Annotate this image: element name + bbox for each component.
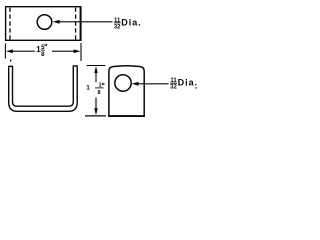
leader line to side hole [137, 83, 169, 85]
side view plate with arched top [109, 66, 144, 116]
svg-text:8: 8 [97, 90, 100, 96]
dim 1 1/8 top extension line [87, 65, 106, 67]
dim line left segment with arrow [12, 50, 35, 52]
svg-text:Dia.: Dia. [121, 18, 142, 28]
dim 1 1/8 bottom extension line [85, 115, 106, 117]
top view right edge (thick) [80, 6, 82, 41]
svg-text:32: 32 [170, 85, 177, 91]
svg-text:32: 32 [114, 25, 121, 31]
U-channel (front view) [9, 66, 78, 111]
dim line right segment with arrow [52, 50, 75, 52]
leader arrowhead (points left at hole) [53, 20, 60, 24]
vertical dim line lower segment with down arrow [95, 98, 97, 110]
svg-text:Dia.: Dia. [178, 78, 199, 88]
dim text 1 1/8" [86, 83, 104, 96]
top view rectangle [6, 7, 81, 41]
bend line left (dashed) [9, 8, 11, 40]
hole (side view circle) [115, 75, 131, 91]
leader arrowhead (points left at side hole) [132, 82, 139, 86]
bend line right (dashed) [75, 8, 77, 40]
label 11/32 Dia. (side) [170, 78, 198, 91]
hole (top view circle) [37, 15, 52, 30]
side view bottom edge (thick) [108, 115, 145, 117]
stray tick above left leg [10, 60, 11, 62]
dim 1 5/8 left extension line [4, 44, 6, 59]
label 11/32 Dia. (top) [114, 18, 142, 31]
svg-text:1: 1 [86, 85, 90, 92]
leader line to top hole [58, 21, 113, 23]
vertical dim line upper segment with up arrow [95, 72, 97, 83]
dim text 1 5/8" [36, 44, 46, 58]
dim 1 5/8 right extension line [80, 43, 82, 61]
